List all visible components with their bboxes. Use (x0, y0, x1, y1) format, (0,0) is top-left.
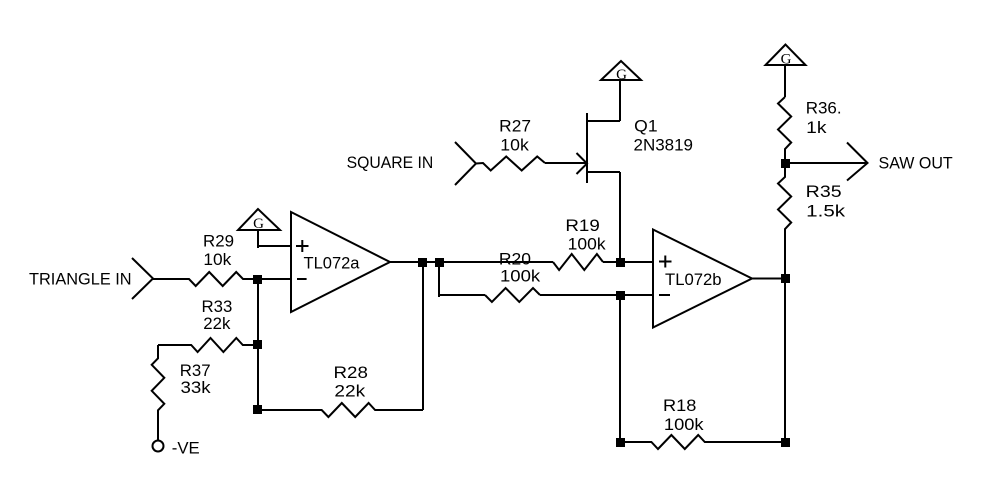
svg-text:R36.: R36. (806, 99, 842, 118)
wire ground G1 to U1a non-inverting input (257, 230, 259, 248)
resistor R29 (153, 272, 258, 286)
junction U1b non-inverting input node (616, 258, 625, 267)
wire SAW OUT (785, 162, 867, 164)
svg-text:TL072a: TL072a (304, 253, 361, 272)
junction R33 node (253, 340, 262, 349)
svg-text:R33: R33 (202, 297, 233, 316)
wire inverting node down to R18 (619, 296, 621, 442)
svg-text:10k: 10k (203, 250, 231, 269)
svg-text:100k: 100k (568, 234, 606, 253)
ground symbol G3 top right (766, 45, 806, 68)
wire feedback from output node down (422, 262, 424, 410)
terminal -VE (153, 441, 164, 452)
wire R29 to U1a inverting input (258, 278, 291, 280)
wire R27 to Q1 gate (545, 162, 587, 164)
svg-text:G: G (253, 216, 264, 232)
svg-text:100k: 100k (500, 267, 541, 286)
wire output node to R19 (439, 261, 553, 263)
wire output node down to R20 line (438, 262, 440, 297)
junction R18 right node (781, 438, 790, 447)
resistor R19 (553, 254, 603, 270)
junction R28 left node (253, 405, 262, 414)
ground symbol G1 above U1a (238, 209, 280, 232)
svg-text:10k: 10k (500, 135, 529, 154)
resistor R33 (158, 338, 258, 352)
wire Q1 drain up to ground (619, 80, 621, 121)
input connector SQUARE IN (455, 142, 476, 185)
wire inverting input node down to R28 (257, 279, 259, 410)
svg-text:R19: R19 (565, 216, 599, 235)
svg-text:R35: R35 (806, 182, 842, 201)
junction U1a output node right (435, 258, 444, 267)
resistor R18 (620, 435, 785, 449)
svg-text:SAW OUT: SAW OUT (879, 154, 953, 173)
svg-text:R20: R20 (499, 249, 531, 268)
svg-text:1.5k: 1.5k (806, 202, 845, 221)
svg-text:R28: R28 (334, 363, 368, 382)
resistor R28 (258, 403, 423, 417)
svg-text:G: G (616, 67, 627, 83)
ground symbol G2 above Q1 (601, 61, 641, 83)
resistor R27 (476, 157, 545, 171)
svg-text:R37: R37 (180, 361, 211, 380)
svg-text:G: G (781, 52, 792, 68)
junction R18 left node (616, 438, 625, 447)
Q1 gate arrow (577, 153, 588, 174)
svg-text:R29: R29 (203, 231, 234, 250)
wire U1b output (752, 278, 786, 280)
svg-text:R27: R27 (499, 117, 531, 136)
transistor Q1 2N3819 (587, 113, 620, 183)
svg-text:22k: 22k (203, 314, 231, 333)
svg-text:1k: 1k (806, 118, 827, 137)
wire ground G3 to R36 (784, 65, 786, 97)
svg-text:R18: R18 (663, 396, 696, 415)
op-amp U1a TL072a (291, 212, 390, 312)
svg-text:33k: 33k (181, 378, 212, 397)
junction U1b inverting input node (616, 291, 625, 300)
wire R19 to U1b non-inverting input (603, 261, 653, 263)
junction U1b output node (781, 274, 790, 283)
wire output node down to R18 (784, 279, 786, 443)
wire U1a output (390, 261, 439, 263)
svg-text:-VE: -VE (172, 439, 200, 458)
junction SAW OUT node (781, 159, 790, 168)
junction U1a output node left (418, 258, 427, 267)
op-amp U1b TL072b (653, 230, 752, 328)
svg-text:100k: 100k (664, 415, 704, 434)
input connector TRIANGLE IN (132, 258, 153, 299)
svg-text:Q1: Q1 (634, 117, 657, 136)
resistor R37 (152, 345, 165, 440)
svg-text:TL072b: TL072b (665, 270, 722, 289)
resistor R35 (778, 163, 791, 279)
junction U1a inverting input node (253, 275, 262, 284)
wire Q1 source down to non-inverting node (619, 172, 621, 259)
resistor R20 (485, 288, 540, 302)
svg-text:2N3819: 2N3819 (634, 135, 694, 154)
svg-text:22k: 22k (334, 381, 365, 400)
wire R20 to U1b inverting input (540, 294, 653, 296)
wire node to R20 (439, 294, 485, 296)
svg-text:SQUARE IN: SQUARE IN (347, 153, 434, 172)
output connector SAW OUT (847, 143, 868, 181)
resistor R36 (778, 97, 791, 163)
svg-text:TRIANGLE IN: TRIANGLE IN (29, 270, 132, 289)
